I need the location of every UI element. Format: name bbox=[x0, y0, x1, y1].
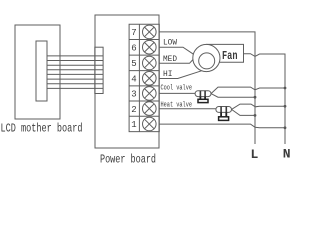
svg-text:Power board: Power board bbox=[100, 153, 156, 167]
svg-text:Heat valve: Heat valve bbox=[161, 101, 193, 109]
svg-text:Fan: Fan bbox=[222, 49, 238, 63]
svg-text:L: L bbox=[251, 147, 259, 162]
svg-text:4: 4 bbox=[131, 75, 136, 85]
svg-text:6: 6 bbox=[131, 43, 136, 53]
svg-text:LOW: LOW bbox=[163, 38, 178, 48]
svg-text:2: 2 bbox=[131, 105, 136, 115]
svg-text:5: 5 bbox=[131, 59, 136, 69]
svg-text:7: 7 bbox=[131, 28, 136, 38]
svg-text:1: 1 bbox=[131, 120, 136, 130]
svg-text:LCD mother board: LCD mother board bbox=[1, 122, 83, 136]
svg-text:Cool valve: Cool valve bbox=[161, 85, 193, 93]
svg-text:3: 3 bbox=[131, 90, 136, 100]
svg-text:N: N bbox=[283, 147, 291, 162]
svg-text:HI: HI bbox=[163, 69, 173, 79]
svg-text:MED: MED bbox=[163, 54, 177, 64]
